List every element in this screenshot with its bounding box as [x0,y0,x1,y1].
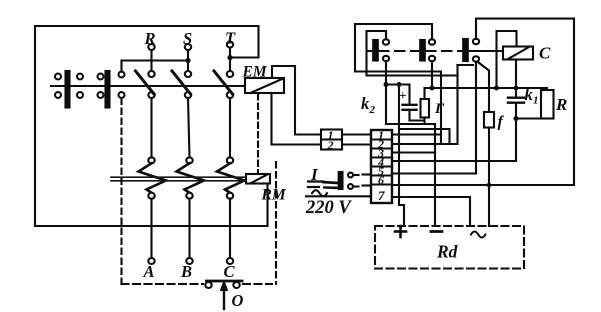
wire: contact3 top to far right drop [476,19,574,185]
wire: slant from contact3 bottom to f [479,63,490,113]
contact K-1 stem [367,50,374,52]
wire: contact1 bottom to plus rail [385,62,387,125]
Rd tilde symbol [471,232,485,238]
wire: switch R to heater 1 [150,98,152,158]
connector X1 socket contact b (top row col2) [77,74,83,80]
wire: minus rail [386,123,435,125]
relay C coil box [503,47,533,60]
switch Q1 pole R pivot contact [148,92,154,98]
wire: contact3 bottom straight down to terminal 5 row [392,62,476,174]
Rd minus symbol [431,230,442,233]
connector X1 socket contact a (top row col1) [55,74,61,80]
wire: socket top dash to terminal 5 [363,173,372,175]
node: junction dot contact2-bottom [430,86,435,91]
wire: socket top tail to terminal 5 [353,174,359,176]
svg-text:S: S [183,29,192,48]
dashed frame bottom edge left part [122,283,204,285]
node: junction dot k1 top [514,86,519,91]
current plug socket circle top [348,173,353,178]
svg-text:EM: EM [242,64,268,81]
connector X1 socket contact d (top row col4) [119,72,125,78]
heater element 1 zigzag [139,163,167,193]
wire: T junction to enclosure loop [230,56,259,58]
EM coil diagonal [253,79,283,92]
relay C coil diagonal [508,47,529,59]
capacitor plate top [403,104,417,106]
Rd plus symbol [395,230,406,233]
node: junction dot contact1-bottom rail [384,82,389,87]
wire: socket bottom tail to terminal 6 [353,185,359,187]
node: junction on S phase line [185,58,190,63]
capacitor k2-filter plus lead [408,85,410,104]
terminal strip divider 2/3 [371,147,392,149]
terminal strip divider 6/7 [371,183,392,185]
svg-text:A: A [143,262,155,281]
wire: long row from terminal 6 to far right drop [392,184,574,186]
heater element 1 bottom circle [148,193,154,199]
svg-text:B: B [180,262,192,281]
capacitor minus lead [410,111,425,121]
wire: block cell2 to strip cell2 [342,143,371,145]
terminal strip divider 1/2 [371,138,392,140]
wire: f down to Rd tilde2 [488,128,490,227]
wire: C coil top loop down to k1 rail [497,31,517,88]
node: junction dot plus rail to rectifier [397,82,402,87]
connector X1 socket contact e (bottom row col1) [55,92,61,98]
wire: terminal 3 row to minus drop [392,151,435,153]
capacitor k1 plate bottom [508,101,524,103]
switch Q1 pole S blade [172,71,191,94]
wire: C coil bottom to k1 top node [515,60,517,89]
wire: socket bottom dash to terminal 6 [363,184,372,186]
wire: block cell1 to strip cell1 [342,133,371,135]
capacitor plate bottom [403,109,417,111]
wire: bus A from outer rect to terminal 1 drop [355,72,441,145]
capacitor k1 top lead [515,88,517,97]
RM thermal relay box [246,174,270,184]
connector X1 socket contact f (bottom row col2) [77,92,83,98]
svg-text:T: T [225,29,236,48]
dashed frame left edge (from connector col4 down) [120,99,122,285]
svg-text:220 V: 220 V [305,198,352,218]
node: junction on T phase line [227,55,232,60]
svg-text:+: + [399,88,406,103]
wire: terminal 1 row stub [392,133,441,135]
wire: switch T to heater 3 [229,98,231,158]
switch Q1 pole R fixed contact [148,71,154,77]
mechanical actuator double line to RM [111,176,246,178]
contact K-2 bottom fixed circle [429,56,435,61]
mechanical dashed link contact2-contact3 [426,50,462,52]
wire: mechanical dashed link EM to RM [257,94,259,173]
heater element 2 bottom circle [186,193,192,199]
wire: horizontal bus from connector to EM coil [51,85,245,87]
svg-text:O: O [232,291,244,310]
svg-text:Rd: Rd [436,242,458,262]
switch Q1 pole T pivot contact [227,92,233,98]
svg-text:6: 6 [378,173,384,187]
wire: terminal 2 row up to contact3 bottom area [392,76,458,145]
contact K-3 moving bar [463,39,468,61]
node: junction C-top wire on k1 rail [494,86,499,91]
relay K contact group inner wire (contact1 top, drop to bus) [367,31,387,76]
contact K-1 top fixed circle [383,39,389,44]
terminal B circle [186,258,192,264]
switch Q1 pole R blade [136,71,155,94]
terminal strip divider 3/4 [371,156,392,158]
terminal block EM 1/2 box [321,130,342,150]
svg-text:RM: RM [261,187,287,204]
contact K-3 top fixed circle [473,39,479,44]
interlock socket circle left of O arrow [205,282,211,288]
contact K-2 moving bar [420,40,425,61]
wire: contact2 bottom down to k1 rail [431,62,433,89]
switch Q1 pole S fixed contact [185,71,191,77]
wire: k1 bottom down to terminal 4 row [392,119,516,162]
heater element 3 top circle [227,157,233,163]
wire: terminal 7 row to Rd tilde1 [392,197,470,226]
wire: plus rail horizontal [386,83,410,85]
wire: switch S to heater 2 [188,98,190,158]
wire: stub vertical contact3 area [456,65,458,76]
svg-text:R: R [555,95,567,114]
wire: k1 rail horizontal [425,87,517,89]
dashed frame bottom edge right part [243,283,272,285]
terminal strip divider 5/6 [371,174,392,176]
wire: R resistor top branch [516,88,547,90]
resistor G top lead [423,88,425,99]
resistor G bottom lead [423,118,425,125]
interlock socket circle right of O arrow [233,282,239,288]
current plug I underline 2 [308,186,319,188]
connector X1 socket contact h (bottom row col4) [119,92,125,98]
wire: EM bottom terminal to terminal block 2 [272,93,322,145]
switch Q1 pole S pivot contact [185,92,191,98]
contact K-1 bottom fixed circle [383,56,389,61]
current plug I underline 1 [308,180,323,182]
svg-text:7: 7 [378,188,385,203]
wire: 220V line to terminal 7 [306,195,371,197]
switch Q1 pole T blade [214,71,233,94]
contact K-2 top fixed circle [429,39,435,44]
svg-text:Γ: Γ [434,101,445,117]
resistor R body [541,90,554,119]
svg-text:R: R [144,29,156,48]
svg-text:2: 2 [369,104,376,116]
wire: plus rail down to Rd plus [399,85,404,227]
wire: main loop T-phase / RM contact (left enclosure outline) [35,26,268,226]
O actuation arrow head [220,280,229,292]
wire: T down to switch [229,48,231,72]
contact K-3 bottom fixed circle [473,56,479,61]
contact K-1 moving bar [373,40,378,61]
heater element 1 top circle [148,157,154,163]
svg-text:1: 1 [533,95,539,107]
capacitor k1 bottom lead [515,104,517,119]
terminal C circle [227,258,233,264]
wire: connector col4 up to S-phase tie line [122,61,189,72]
connector X1 socket contact g (bottom row col3) [98,92,104,98]
terminal block EM 1/2 divider [321,138,342,140]
relay K contact group outer wire rectangle (contact2 top to inner drop) [355,24,432,72]
node: junction dot k1 bottom [514,116,519,121]
fuse f body [484,112,494,128]
wire: S down to switch [187,50,189,71]
node: junction f line with row 6 wire [487,183,492,188]
heater element 3 zigzag [217,163,245,193]
wire: R down to switch [150,50,152,71]
terminal T input circle [227,42,233,48]
connector X1 pin bar 1 [66,71,70,108]
O actuation arrow shaft [223,288,225,309]
terminal R input circle [148,44,154,50]
wire: stub from contact3 bottom toward bus verticals [458,64,474,66]
label tilde source wave [312,190,327,196]
current plug socket circle bottom [348,184,353,189]
wire: contact3 stem to relay C coil [468,50,504,52]
svg-text:2: 2 [327,138,334,152]
switch Q1 pole T fixed contact [227,71,233,77]
terminal S input circle [185,44,191,50]
terminal A circle [148,258,154,264]
terminal strip 1-7 box [371,130,392,203]
resistor G body [421,99,430,118]
heater element 2 top circle [186,157,192,163]
current plug pin bottom wedge [323,186,339,189]
svg-text:C: C [539,44,551,63]
rectifier Rd dashed box [375,226,524,269]
mechanical dashed link contact1-contact2 [379,50,420,52]
wire: short jumper row above strip [399,129,450,144]
current plug pin top wedge [322,181,339,185]
EM coil box [245,78,284,93]
wire: bus B from inner rect to terminal 2 drop [367,74,458,76]
wire: heater 1 to terminal A [150,199,152,258]
RM relay diagonal [251,175,267,183]
wire: heater 3 to terminal C [229,199,231,258]
wire: minus drop to Rd minus [434,124,436,226]
connector X1 pin bar 2 [106,71,110,108]
terminal strip divider 4/5 [371,165,392,167]
wire: EM top terminal to terminal block 1 [272,66,321,135]
dashed frame right edge [275,162,277,284]
heater element 2 zigzag [177,163,205,193]
current plug body bar [339,172,343,189]
wire: heater 2 to terminal B [188,199,190,258]
capacitor k1 plate top [508,96,524,98]
heater element 3 bottom circle [227,193,233,199]
svg-text:C: C [224,262,236,281]
interlock bar above O arrow [207,280,243,283]
wire: R resistor bottom branch [516,117,547,119]
connector X1 socket contact c (top row col3) [98,74,104,80]
